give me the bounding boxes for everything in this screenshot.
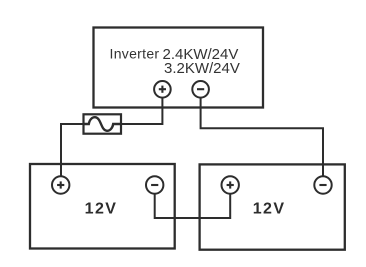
svg-text:12V: 12V bbox=[85, 200, 118, 217]
fuse bbox=[84, 114, 122, 133]
value label: 3.2KW/24V bbox=[164, 60, 240, 77]
inverter positive terminal bbox=[154, 81, 171, 98]
label: 12V (battery 1) bbox=[85, 200, 118, 217]
wire: fuse left lead to battery 1 positive terminal bbox=[61, 124, 84, 177]
label: Inverter bbox=[110, 46, 160, 62]
inverter negative terminal bbox=[192, 81, 209, 98]
value label: 2.4KW/24V bbox=[163, 46, 239, 63]
battery 2 box bbox=[200, 164, 345, 249]
wire: inverter - terminal to battery 2 negative terminal bbox=[201, 97, 323, 177]
battery 1 box bbox=[30, 164, 175, 249]
label: 12V (battery 2) bbox=[253, 200, 286, 217]
battery 1 negative terminal bbox=[146, 176, 163, 193]
inverter box bbox=[94, 28, 264, 108]
svg-text:3.2KW/24V: 3.2KW/24V bbox=[164, 60, 240, 77]
wire: inverter + terminal to fuse right lead bbox=[121, 97, 162, 124]
svg-text:12V: 12V bbox=[253, 200, 286, 217]
battery 2 positive terminal bbox=[222, 176, 239, 193]
battery 1 positive terminal bbox=[52, 176, 69, 193]
battery 2 negative terminal bbox=[314, 176, 331, 193]
wire: battery 1 - to battery 2 + (series link) bbox=[155, 193, 231, 218]
svg-text:Inverter: Inverter bbox=[110, 46, 160, 62]
